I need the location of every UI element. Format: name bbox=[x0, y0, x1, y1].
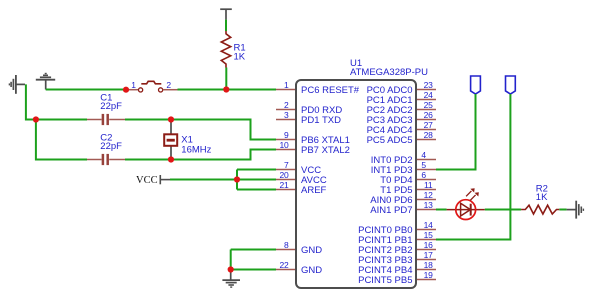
wire: C2 to crystal bottom node bbox=[125, 159, 171, 161]
svg-text:19: 19 bbox=[424, 270, 434, 280]
pin 6 stub (T0 PD4) bbox=[417, 179, 436, 181]
wire: ground down to C1 row bbox=[26, 84, 36, 119]
wire: LED cathode to R2 bbox=[485, 209, 521, 211]
wire: VCC node to pin 7 bbox=[237, 169, 276, 171]
junction: RESET / R1 node bbox=[223, 86, 229, 92]
pin 15 stub (PCINT1 PB1) bbox=[417, 239, 436, 241]
resistor R1 bbox=[221, 31, 230, 68]
wire: RESET to pin 1 bbox=[226, 89, 276, 91]
svg-text:1K: 1K bbox=[536, 192, 548, 203]
svg-text:18: 18 bbox=[424, 260, 434, 270]
IC U1 ATMEGA328P-PU body bbox=[296, 80, 416, 288]
svg-text:5: 5 bbox=[421, 160, 426, 170]
svg-text:17: 17 bbox=[424, 250, 434, 260]
svg-text:PD1 TXD: PD1 TXD bbox=[301, 115, 341, 126]
svg-text:20: 20 bbox=[279, 170, 289, 180]
svg-text:3: 3 bbox=[284, 110, 289, 120]
pin 20 stub (AVCC) bbox=[276, 179, 295, 181]
LED light arrows bbox=[466, 189, 478, 201]
svg-text:GND: GND bbox=[301, 265, 322, 276]
svg-text:1K: 1K bbox=[234, 52, 246, 63]
pin 22 stub (GND) bbox=[276, 269, 295, 271]
ground symbol (stacked bars, left of caps) bbox=[9, 75, 25, 94]
svg-text:12: 12 bbox=[424, 190, 434, 200]
svg-text:11: 11 bbox=[424, 180, 433, 190]
svg-text:14: 14 bbox=[424, 220, 434, 230]
wire: VCC node to pin 20 bbox=[237, 179, 276, 181]
svg-text:GND: GND bbox=[301, 245, 322, 256]
svg-text:PC6 RESET#: PC6 RESET# bbox=[301, 85, 360, 96]
wire: GND node to pin 22 bbox=[231, 269, 276, 271]
svg-text:24: 24 bbox=[424, 90, 434, 100]
pin 8 stub (GND) bbox=[276, 249, 295, 251]
power symbol VCC bar bbox=[160, 175, 170, 184]
svg-text:2: 2 bbox=[166, 80, 171, 90]
junction: XTAL2 node bbox=[168, 156, 174, 162]
junction: switch pin1 node bbox=[123, 87, 129, 93]
wire: pin 13 to LED anode bbox=[436, 209, 447, 211]
wire: ground to switch pin 1 bbox=[46, 89, 126, 91]
capacitor C1 bbox=[87, 114, 125, 125]
pin 13 stub (AIN1 PD7) bbox=[417, 209, 436, 211]
connector JP1 pinhead bbox=[471, 76, 481, 94]
svg-text:6: 6 bbox=[421, 170, 426, 180]
pin 2 stub (PD0 RXD) bbox=[276, 109, 295, 111]
ground symbol (stacked bars, below IC) bbox=[222, 270, 240, 288]
resistor R2 bbox=[521, 205, 559, 214]
junction: caps ground node bbox=[33, 116, 39, 122]
svg-text:PB7 XTAL2: PB7 XTAL2 bbox=[301, 145, 350, 156]
pin 7 stub (VCC) bbox=[276, 169, 295, 171]
wire: GND vertical bbox=[230, 250, 232, 270]
wire: ground node down to C2 row bbox=[36, 120, 87, 160]
ground symbol (stacked bars, on reset pull wire) bbox=[36, 74, 55, 90]
junction: GND node bbox=[228, 266, 234, 272]
svg-text:22pF: 22pF bbox=[100, 141, 122, 152]
svg-text:13: 13 bbox=[424, 200, 434, 210]
svg-text:22pF: 22pF bbox=[100, 101, 122, 112]
wire: supply to R1 top bbox=[225, 20, 227, 31]
switch S1 pin 2 circle bbox=[159, 88, 163, 92]
switch S1 pin 1 lead bbox=[126, 89, 139, 91]
wire: XTAL2 node to pin 10 bbox=[171, 150, 276, 160]
switch S1 actuator bar bbox=[141, 81, 161, 84]
svg-text:VCC: VCC bbox=[136, 175, 158, 186]
wire: JP1 to pin 5 (INT1 PD3) bbox=[436, 94, 476, 170]
svg-text:26: 26 bbox=[424, 110, 434, 120]
pin 5 stub (INT1 PD3) bbox=[417, 169, 436, 171]
pin 4 stub (INT0 PD2) bbox=[417, 159, 436, 161]
pin 25 stub (PC2 ADC2) bbox=[417, 109, 436, 111]
pin 24 stub (PC1 ADC1) bbox=[417, 99, 436, 101]
pin 9 stub (PB6 XTAL1) bbox=[276, 139, 295, 141]
svg-text:9: 9 bbox=[284, 130, 289, 140]
pin 16 stub (PCINT2 PB2) bbox=[417, 249, 436, 251]
svg-text:1: 1 bbox=[131, 80, 136, 90]
pin 17 stub (PCINT3 PB3) bbox=[417, 259, 436, 261]
pin 21 stub (AREF) bbox=[276, 189, 295, 191]
svg-text:21: 21 bbox=[279, 180, 289, 190]
pin 11 stub (T1 PD5) bbox=[417, 189, 436, 191]
pin 10 stub (PB7 XTAL2) bbox=[276, 149, 295, 151]
wire: switch to R1 junction bbox=[178, 89, 227, 91]
svg-text:7: 7 bbox=[284, 160, 289, 170]
svg-text:15: 15 bbox=[424, 230, 434, 240]
ground symbol (stacked bars, right of R2) bbox=[567, 201, 584, 219]
switch S1 pin 1 circle bbox=[139, 88, 143, 92]
pin 12 stub (AIN0 PD6) bbox=[417, 199, 436, 201]
switch S1 pin 2 lead bbox=[163, 89, 178, 91]
wire: R1 bottom to RESET net bbox=[225, 68, 227, 90]
svg-text:16: 16 bbox=[424, 240, 434, 250]
crystal X1 bbox=[164, 120, 177, 160]
wire: JP2 to pin 15 (PCINT1 PB1) bbox=[436, 94, 510, 240]
junction: VCC node bbox=[234, 176, 240, 182]
wire: XTAL1 node to pin 9 bbox=[171, 120, 276, 140]
wire: VCC bracket vertical bbox=[236, 170, 238, 190]
wire: VCC node to pin 21 bbox=[237, 189, 276, 191]
svg-text:2: 2 bbox=[284, 100, 289, 110]
svg-text:4: 4 bbox=[421, 150, 426, 160]
svg-text:25: 25 bbox=[424, 100, 434, 110]
wire: VCC to AVCC node bbox=[170, 179, 237, 181]
pin 23 stub (PC0 ADC0) bbox=[417, 89, 436, 91]
svg-text:AREF: AREF bbox=[301, 185, 327, 196]
pin 18 stub (PCINT4 PB4) bbox=[417, 269, 436, 271]
svg-text:23: 23 bbox=[424, 80, 434, 90]
wire: C1 to crystal top node bbox=[125, 119, 171, 121]
svg-text:10: 10 bbox=[279, 140, 289, 150]
wire: GND pin 8 branch bbox=[231, 249, 276, 251]
pin 1 stub (PC6 RESET#) bbox=[276, 89, 295, 91]
pin 14 stub (PCINT0 PB0) bbox=[417, 229, 436, 231]
pin 3 stub (PD1 TXD) bbox=[276, 119, 295, 121]
svg-text:PC5 ADC5: PC5 ADC5 bbox=[367, 135, 413, 146]
svg-text:28: 28 bbox=[424, 130, 434, 140]
junction: XTAL1 node bbox=[168, 116, 174, 122]
power supply VCC bar symbol (top) bbox=[220, 9, 232, 19]
pin 19 stub (PCINT5 PB5) bbox=[417, 279, 436, 281]
pin 26 stub (PC3 ADC3) bbox=[417, 119, 436, 121]
svg-text:22: 22 bbox=[279, 260, 289, 270]
svg-text:AIN1 PD7: AIN1 PD7 bbox=[370, 205, 412, 216]
LED LED1 bbox=[447, 200, 485, 220]
capacitor C2 bbox=[87, 154, 125, 165]
wire: ground node to C1 bbox=[36, 119, 87, 121]
wire: R2 to ground bbox=[559, 209, 566, 211]
connector JP2 pinhead bbox=[506, 76, 516, 94]
pin 27 stub (PC4 ADC4) bbox=[417, 129, 436, 131]
svg-text:16MHz: 16MHz bbox=[181, 144, 211, 155]
pin 28 stub (PC5 ADC5) bbox=[417, 139, 436, 141]
svg-text:PCINT5 PB5: PCINT5 PB5 bbox=[358, 275, 412, 286]
svg-text:ATMEGA328P-PU: ATMEGA328P-PU bbox=[350, 67, 428, 78]
svg-text:27: 27 bbox=[424, 120, 434, 130]
svg-text:1: 1 bbox=[284, 80, 289, 90]
svg-text:8: 8 bbox=[284, 240, 289, 250]
